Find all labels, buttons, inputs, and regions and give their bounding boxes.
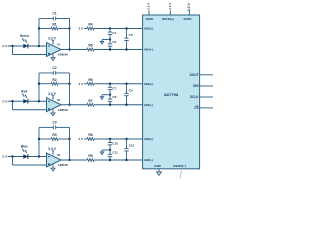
svg-text:R3: R3 [52, 133, 56, 137]
svg-text:C8: C8 [112, 95, 116, 99]
junction [125, 159, 127, 161]
svg-text:C5: C5 [112, 40, 116, 44]
wire (DVDD supply stub) [188, 10, 190, 15]
svg-text:C7: C7 [112, 86, 116, 90]
junction [38, 83, 40, 85]
svg-text:AD8500: AD8500 [58, 108, 69, 112]
ground (op-amp) [51, 164, 55, 171]
wire [94, 28, 143, 30]
wire [84, 83, 87, 85]
junction [125, 104, 127, 106]
wire (to noninverting input) [13, 101, 47, 110]
pin REFIN(+) [162, 17, 174, 21]
wire (to noninverting input) [13, 157, 47, 166]
wire [94, 49, 143, 51]
pin AIN2(−) [144, 103, 154, 107]
capacitor C4 [108, 29, 117, 40]
junction [11, 45, 13, 47]
ground (filter midpoint) [100, 40, 110, 45]
junction [109, 138, 111, 140]
pin DOUT [190, 73, 199, 77]
capacitor C1 [39, 12, 70, 21]
svg-text:3 V: 3 V [79, 137, 85, 141]
svg-text:3 V: 3 V [2, 44, 8, 48]
svg-text:Green: Green [20, 34, 29, 38]
svg-text:R7: R7 [88, 99, 92, 103]
capacitor C5 [108, 40, 117, 50]
svg-text:U1: U1 [57, 43, 61, 47]
svg-text:U2: U2 [57, 98, 61, 102]
pin AVDD [145, 17, 153, 21]
ground (ADC GND) [157, 169, 162, 176]
wire [200, 107, 213, 109]
svg-text:AIN2(+): AIN2(+) [144, 82, 154, 86]
capacitor C11 [108, 150, 118, 160]
junction [109, 159, 111, 161]
capacitor C8 [108, 95, 117, 105]
wire [8, 45, 47, 47]
svg-text:Red: Red [21, 89, 27, 93]
svg-text:SCLK: SCLK [190, 95, 199, 99]
junction [11, 100, 13, 102]
resistor R4 [87, 23, 94, 30]
capacitor C3 [39, 120, 70, 129]
svg-text:AD7798: AD7798 [164, 92, 179, 97]
junction [68, 48, 70, 50]
node 3V (stage 1) [79, 27, 85, 31]
svg-text:C4: C4 [112, 31, 116, 35]
svg-text:C3: C3 [52, 120, 56, 124]
resistor R3 [39, 133, 70, 140]
svg-text:AIN3(−): AIN3(−) [144, 158, 154, 162]
junction [38, 138, 40, 140]
svg-text:R2: R2 [52, 78, 56, 82]
svg-text:R5: R5 [88, 44, 92, 48]
junction [38, 27, 40, 29]
svg-text:AIN3(+): AIN3(+) [144, 137, 154, 141]
junction [125, 48, 127, 50]
wire [94, 104, 143, 106]
pin SCLK [190, 95, 199, 99]
pin AIN1(+) [144, 27, 154, 31]
wire [84, 28, 87, 30]
svg-text:3.3 V: 3.3 V [147, 3, 151, 10]
light arrows into D3 [22, 149, 27, 154]
svg-text:3 V: 3 V [2, 99, 8, 103]
svg-text:GND: GND [154, 164, 162, 168]
wire [94, 83, 143, 85]
wire (AVDD supply stub) [148, 10, 150, 15]
wire [200, 85, 213, 87]
wire [94, 138, 143, 140]
supply 3.3V [48, 92, 56, 100]
label Green [20, 34, 29, 38]
wire [8, 100, 47, 102]
svg-text:3 V: 3 V [79, 27, 85, 31]
wire (feedback right leg) [69, 73, 71, 105]
junction [68, 27, 70, 29]
node 3.3V (DVDD) [187, 2, 191, 11]
wire (op-amp output) [61, 104, 87, 106]
junction [125, 27, 127, 29]
photodiode D2 (Red) [23, 99, 28, 104]
ADC U4 AD7798 (body) [143, 15, 200, 169]
junction [68, 159, 70, 161]
photodiode D3 (Blue) [23, 154, 28, 159]
pin CS [194, 106, 198, 110]
node 3V (stage 3) [79, 137, 85, 141]
wire (feedback right leg) [69, 127, 71, 160]
junction [38, 100, 40, 102]
svg-text:C6: C6 [129, 33, 133, 37]
ground (filter midpoint) [100, 95, 110, 100]
wire (feedback left leg) [38, 73, 40, 101]
resistor R6 [87, 78, 94, 85]
resistor R7 [87, 99, 94, 106]
wire [200, 96, 213, 98]
junction [38, 155, 40, 157]
svg-text:AD8500: AD8500 [58, 163, 69, 167]
capacitor C2 [39, 66, 70, 75]
svg-text:3 V: 3 V [2, 155, 8, 159]
pin AIN1(−) [144, 48, 154, 52]
svg-text:3.3 V: 3.3 V [168, 3, 172, 10]
label Red [21, 89, 27, 93]
pin DVDD [184, 17, 192, 21]
svg-text:C9: C9 [129, 88, 133, 92]
svg-text:AIN1(+): AIN1(+) [144, 27, 154, 31]
wire (REFIN(+) supply stub) [169, 10, 171, 15]
svg-text:C10: C10 [112, 142, 118, 146]
wire (op-amp output) [61, 159, 87, 161]
svg-text:AD8500: AD8500 [58, 53, 69, 57]
wire [94, 159, 143, 161]
light arrows into D2 [22, 94, 27, 99]
svg-text:DOUT: DOUT [190, 73, 199, 77]
svg-text:REFIN(−): REFIN(−) [173, 164, 186, 168]
svg-text:U3: U3 [57, 153, 61, 157]
svg-text:R9: R9 [88, 154, 92, 158]
pin GND [154, 164, 162, 168]
junction [68, 104, 70, 106]
op-amp U2 AD8500 [47, 98, 69, 112]
capacitor C7 [108, 84, 117, 95]
svg-text:3.3 V: 3.3 V [187, 2, 191, 11]
svg-text:DVDD: DVDD [184, 17, 192, 21]
node 3V (stage 1 photodiode bias) [2, 44, 8, 48]
resistor R5 [87, 44, 94, 51]
pin DIN [193, 84, 199, 88]
junction (filter midpoint) [109, 38, 111, 40]
resistor R9 [87, 154, 94, 161]
op-amp U1 AD8500 [47, 43, 69, 57]
svg-text:R8: R8 [88, 133, 92, 137]
resistor R8 [87, 133, 94, 140]
capacitor C9 [124, 84, 133, 105]
svg-text:R1: R1 [52, 23, 56, 27]
junction [68, 83, 70, 85]
svg-text:AIN1(−): AIN1(−) [144, 48, 154, 52]
op-amp U3 AD8500 [47, 153, 69, 167]
wire [200, 74, 213, 76]
junction [125, 138, 127, 140]
junction [109, 27, 111, 29]
svg-text:Blue: Blue [21, 145, 28, 149]
wire [8, 156, 47, 158]
junction [68, 138, 70, 140]
svg-text:R6: R6 [88, 78, 92, 82]
junction [109, 48, 111, 50]
svg-text:CS: CS [194, 106, 198, 110]
svg-text:3 V: 3 V [79, 82, 85, 86]
pin REFIN(-) [173, 164, 186, 168]
pin AIN2(+) [144, 82, 154, 86]
junction [109, 104, 111, 106]
junction [125, 83, 127, 85]
node 3V (stage 2) [79, 82, 85, 86]
svg-text:C1: C1 [52, 12, 56, 16]
photodiode D1 (Green) [23, 44, 28, 49]
svg-text:AIN2(−): AIN2(−) [144, 103, 154, 107]
resistor R2 [39, 78, 70, 85]
capacitor C10 [108, 139, 119, 150]
wire (feedback left leg) [38, 19, 40, 47]
supply 3.3V [48, 147, 56, 155]
ground (filter midpoint) [100, 150, 110, 155]
node 3V (stage 2 photodiode bias) [2, 99, 8, 103]
capacitor C6 [124, 29, 133, 50]
light arrows into D1 [22, 38, 27, 43]
junction [109, 83, 111, 85]
wire (to noninverting input) [13, 46, 47, 55]
pin AIN3(−) [144, 158, 154, 162]
wire (REFIN- stub) [180, 169, 181, 178]
wire [84, 138, 87, 140]
junction (filter midpoint) [109, 94, 111, 96]
svg-text:R4: R4 [88, 23, 92, 27]
node 3.3V (AVDD) [147, 3, 151, 10]
svg-text:DIN: DIN [193, 84, 199, 88]
junction (filter midpoint) [109, 149, 111, 151]
svg-text:AVDD: AVDD [145, 17, 153, 21]
ground (op-amp) [51, 109, 55, 116]
resistor R1 [39, 23, 70, 30]
ground (op-amp) [51, 54, 55, 61]
svg-text:REFIN(+): REFIN(+) [162, 17, 174, 21]
supply 3.3V [48, 37, 56, 45]
junction [38, 45, 40, 47]
junction [11, 155, 13, 157]
capacitor C12 [124, 139, 134, 160]
node 3.3V (REFIN(+)) [168, 3, 172, 10]
label Blue [21, 145, 28, 149]
wire (feedback right leg) [69, 19, 71, 50]
node 3V (stage 3 photodiode bias) [2, 155, 8, 159]
wire (op-amp output) [61, 49, 87, 51]
svg-text:C12: C12 [129, 144, 135, 148]
pin AIN3(+) [144, 137, 154, 141]
svg-text:C11: C11 [112, 150, 118, 154]
svg-text:C2: C2 [52, 66, 56, 70]
wire (feedback left leg) [38, 127, 40, 156]
